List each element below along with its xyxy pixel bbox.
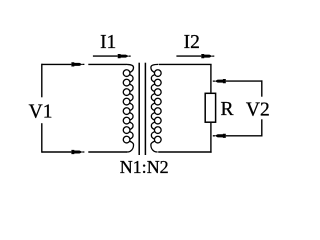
arrow: I2 direction arrow: [201, 54, 214, 58]
wire: primary bottom lead (left segment): [42, 151, 72, 153]
svg-text:I2: I2: [184, 32, 200, 53]
transformer primary winding N1: [123, 64, 133, 152]
resistor R box: [205, 93, 215, 122]
wire: secondary bottom lead: [158, 151, 211, 153]
wire: V2 bracket right vertical (below V2): [261, 119, 263, 136]
wire: V2 bracket bottom line: [226, 135, 263, 137]
wire: secondary right vertical above resistor: [210, 64, 212, 92]
V2 bracket bottom arrow (points left): [213, 134, 226, 138]
wire: primary top lead (left segment): [42, 63, 72, 65]
wire: I1 arrow line: [93, 55, 118, 57]
wire: primary bottom lead (right segment to winding): [88, 151, 127, 153]
transformer core line 2: [144, 63, 146, 155]
wire: V2 bracket top line: [226, 80, 263, 82]
svg-text:R: R: [220, 99, 233, 120]
wire: secondary top lead: [159, 63, 212, 65]
svg-text:I1: I1: [100, 32, 116, 53]
transformer core line 1: [138, 63, 140, 155]
wire: V2 bracket right vertical (above V2): [261, 80, 263, 96]
arrow: current arrow on primary top wire: [71, 62, 84, 66]
wire: I2 arrow line: [176, 55, 201, 57]
V2 bracket top arrow (points left): [213, 79, 226, 83]
wire: secondary right vertical below resistor: [210, 123, 212, 153]
wire: left vertical below V1: [41, 123, 43, 153]
arrow: I1 direction arrow: [118, 54, 131, 58]
svg-text:N1:N2: N1:N2: [120, 157, 169, 177]
wire: primary top lead (right segment to winding): [88, 63, 126, 65]
svg-text:V1: V1: [29, 102, 53, 123]
transformer secondary winding N2: [151, 64, 161, 152]
svg-text:V2: V2: [246, 99, 270, 120]
arrow: current arrow on primary bottom wire: [71, 150, 84, 154]
wire: left vertical above V1: [41, 64, 43, 98]
